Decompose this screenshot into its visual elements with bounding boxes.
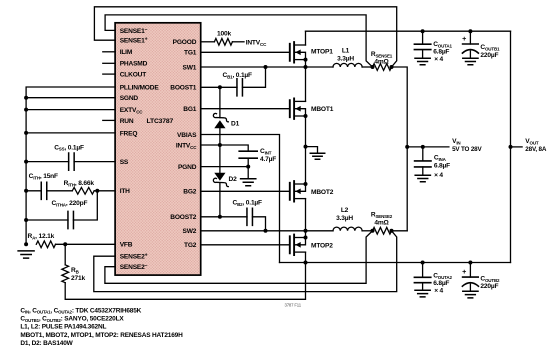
inductor L1 3.3uH	[333, 63, 362, 67]
node FREQ bus junction	[24, 131, 28, 135]
inductor L2 3.3uH	[333, 227, 362, 231]
svg-text:SENSE1–: SENSE1–	[120, 27, 148, 35]
wire L2 to RSENSE2	[362, 230, 372, 232]
diode D2 BAS140W schottky	[214, 173, 225, 181]
svg-text:CB2, 0.1µF: CB2, 0.1µF	[233, 200, 263, 207]
wire RA to VFB pin	[56, 243, 116, 245]
svg-text:MBOT2: MBOT2	[311, 189, 334, 196]
capacitor CINT 4.7uF	[239, 151, 257, 158]
wire CINT to ground	[247, 158, 249, 178]
wire L1 to RSENSE1	[362, 66, 372, 68]
capacitor COUTA1 6.8uF x4	[414, 44, 430, 49]
wire FREQ row	[26, 132, 115, 134]
wire TG2 to MTOP2 gate	[201, 244, 290, 246]
svg-text:BG2: BG2	[183, 189, 197, 196]
wire INTVCC to D2 anode	[219, 145, 221, 173]
wire SENSE1- kelvin loop to RSENSE1 left	[105, 15, 372, 67]
wire MBOT2 drain to SW2	[305, 199, 307, 231]
svg-text:× 4: × 4	[434, 172, 443, 179]
svg-text:COUTB1: COUTB1	[480, 44, 500, 51]
svg-text:D1, D2: BAS140W: D1, D2: BAS140W	[20, 340, 73, 347]
svg-text:VOUT: VOUT	[525, 138, 539, 145]
node BOOST1 D1 tap	[218, 85, 222, 89]
svg-text:TG1: TG1	[184, 50, 197, 57]
svg-text:100k: 100k	[217, 31, 231, 38]
node ITH junction	[95, 189, 99, 193]
wire SW1 to L1	[306, 66, 334, 68]
node SW1 junction	[304, 65, 308, 69]
svg-text:MBOT1: MBOT1	[311, 106, 334, 113]
ground symbol at RA	[18, 251, 34, 258]
svg-text:4.7µF: 4.7µF	[260, 156, 276, 163]
capacitor CB2 0.1uF	[247, 208, 253, 225]
ground symbol below COUTB1	[463, 58, 478, 65]
diode D1 BAS140W schottky	[214, 120, 225, 128]
svg-text:INTVCC: INTVCC	[246, 40, 267, 47]
svg-text:CB1, 0.1µF: CB1, 0.1µF	[223, 72, 253, 79]
capacitor CB1 0.1uF	[237, 79, 243, 96]
wire CB1 to SW1	[243, 67, 266, 87]
svg-text:D2: D2	[229, 176, 238, 183]
svg-text:VBIAS: VBIAS	[177, 132, 197, 139]
svg-text:PHASMD: PHASMD	[120, 61, 148, 68]
node MTOP2 drain rail junction	[304, 261, 308, 265]
svg-text:ILIM: ILIM	[120, 49, 133, 56]
svg-text:L2: L2	[341, 207, 349, 214]
node COUTB1 junction	[468, 29, 472, 33]
svg-text:PLLIN/MODE: PLLIN/MODE	[120, 84, 160, 91]
svg-text:CINT: CINT	[260, 148, 272, 155]
wire PGOOD pin to resistor	[201, 41, 215, 43]
wire stub pin RUN	[103, 119, 115, 121]
svg-text:COUTB2: COUTB2	[480, 276, 500, 283]
ground symbol power stage	[310, 153, 324, 159]
node VOUT tap junction	[509, 145, 513, 149]
svg-text:COUTA2: COUTA2	[433, 272, 452, 279]
svg-text:VIN: VIN	[452, 138, 460, 145]
wire VOUT top rail	[306, 30, 511, 32]
wire SW1 row	[201, 66, 306, 68]
wire stub pin PHASMD	[103, 62, 115, 64]
svg-text:4mΩ: 4mΩ	[374, 58, 389, 65]
svg-text:COUTA1: COUTA1	[433, 41, 452, 48]
svg-text:RITH, 8.66k: RITH, 8.66k	[64, 180, 95, 187]
svg-text:6.8µF: 6.8µF	[434, 162, 450, 169]
wire CITH to RITH	[47, 190, 73, 192]
transistor MBOT1 HAT2169H	[289, 100, 291, 117]
node COUTB2 junction	[468, 261, 472, 265]
transistor MBOT2 HAT2169H	[289, 183, 291, 200]
svg-text:5V TO 28V: 5V TO 28V	[452, 146, 482, 153]
svg-text:RB: RB	[71, 267, 80, 274]
svg-text:MBOT1, MBOT2, MTOP1, MTOP2: RE: MBOT1, MBOT2, MTOP1, MTOP2: RENESAS HAT2…	[20, 332, 183, 339]
wire VOUT bottom rail	[280, 262, 511, 264]
wire COUTA2 lead	[422, 263, 424, 278]
node COUTA1 junction	[421, 29, 425, 33]
wire COUTB1 lead	[469, 31, 471, 44]
svg-text:L1, L2: PULSE PA1494.362NL: L1, L2: PULSE PA1494.362NL	[20, 324, 106, 331]
wire SENSE1+ kelvin loop to RSENSE1 right	[94, 7, 396, 67]
svg-text:CITH, 15nF: CITH, 15nF	[29, 173, 58, 180]
svg-text:MTOP1: MTOP1	[311, 49, 333, 56]
capacitor CSS 0.1uF	[69, 153, 75, 170]
wire D1 anode to INTVCC row	[219, 128, 221, 145]
wire SW2 row	[201, 230, 306, 232]
svg-text:RSENSE2: RSENSE2	[371, 212, 393, 219]
wire COUTB1 to ground	[469, 51, 471, 57]
svg-text:VFB: VFB	[120, 242, 133, 249]
wire D2 cathode to BOOST2 row	[219, 183, 221, 217]
wire SW2 to MTOP2 source	[305, 231, 307, 238]
wire VOUT right rail	[510, 31, 512, 262]
wire stub pin ILIM	[103, 51, 115, 53]
wire RITH to ITH pin	[94, 190, 115, 192]
wire VOUT stub	[511, 146, 523, 148]
node BOOST2 D2 tap	[218, 215, 222, 219]
wire ground node to MBOT2 source	[305, 147, 307, 184]
node RSENSE1 left terminal	[371, 65, 375, 69]
node INTVCC D1-D2 junction	[218, 143, 222, 147]
wire VIN row	[407, 146, 449, 148]
wire BOOST2 row	[201, 216, 247, 218]
svg-text:SENSE1+: SENSE1+	[120, 37, 148, 45]
svg-text:RUN: RUN	[120, 118, 134, 125]
svg-text:COUTB1, COUTB2: SANYO, 50CE220: COUTB1, COUTB2: SANYO, 50CE220LX	[20, 315, 124, 322]
svg-text:220µF: 220µF	[480, 52, 498, 59]
svg-text:TG2: TG2	[184, 242, 197, 249]
wire PGND row	[201, 166, 249, 168]
svg-text:4mΩ: 4mΩ	[374, 220, 389, 227]
svg-text:MTOP2: MTOP2	[311, 242, 333, 249]
wire SGND row	[26, 97, 115, 99]
wire SS row right segment	[74, 161, 115, 163]
wire ITH row bus to CITH	[26, 190, 41, 192]
ground symbol below COUTA1	[415, 58, 430, 65]
node SGND bus junction	[24, 96, 28, 100]
ground symbol below CINT	[241, 179, 256, 186]
wire VFB node down to RB	[64, 244, 66, 264]
node CSS bus junction	[24, 160, 28, 164]
node CINA junction	[421, 145, 425, 149]
svg-text:CLKOUT: CLKOUT	[120, 72, 147, 79]
wire INTVCC row	[201, 145, 249, 151]
wire BG1 to MBOT1 gate	[201, 108, 290, 110]
wire CINA to ground	[422, 167, 424, 175]
capacitor CITHA 220pF	[68, 211, 74, 228]
resistor 100k PGOOD pull-up	[214, 38, 232, 45]
capacitor COUTA2 6.8uF x4	[414, 277, 430, 282]
svg-text:3.3µH: 3.3µH	[336, 215, 353, 222]
wire BOOST1 row	[201, 86, 237, 88]
svg-text:6.8µF: 6.8µF	[433, 49, 449, 56]
wire COUTB2 to ground	[469, 284, 471, 290]
node power ground junction	[304, 145, 308, 149]
wire RSENSE2 to VIN rail corner	[392, 230, 408, 232]
wire VBIAS to VOUT bottom rail	[201, 135, 280, 263]
svg-text:PGND: PGND	[178, 164, 197, 171]
svg-text:PGOOD: PGOOD	[173, 39, 197, 46]
svg-text:BOOST2: BOOST2	[170, 214, 197, 221]
wire MTOP2 drain to VOUT bottom rail	[305, 252, 307, 262]
resistor RA 12.1k	[36, 241, 55, 248]
capacitor CINA 6.8uF x4	[415, 161, 431, 167]
svg-text:SENSE2–: SENSE2–	[120, 263, 148, 271]
wire MBOT1 source to ground node	[305, 116, 307, 147]
wire resistor to INTVCC net label	[232, 41, 244, 43]
wire left ground bus with PLLIN/MODE row	[26, 87, 115, 244]
node SW2 CB2 tap	[264, 229, 268, 233]
resistor RSENSE2 4mOhm	[373, 227, 392, 234]
wire RSENSE1 to VIN rail	[392, 67, 408, 231]
wire CITHA branch	[26, 219, 68, 221]
wire RB to VOUT rail	[65, 263, 305, 300]
node CITH bus junction	[24, 189, 28, 193]
capacitor CITH 15nF	[41, 182, 47, 199]
svg-text:SS: SS	[120, 159, 129, 166]
transistor MTOP1 HAT2169H	[289, 44, 291, 61]
node CITHA bus junction	[24, 218, 28, 222]
ground symbol below CINA	[415, 175, 430, 182]
svg-text:RA, 12.1k: RA, 12.1k	[28, 233, 55, 240]
wire VOUT top rail corner to MTOP1 drain	[305, 31, 307, 45]
svg-text:SGND: SGND	[120, 95, 139, 102]
wire ground stub	[306, 147, 318, 153]
ground symbol below COUTA2	[415, 290, 430, 297]
resistor RSENSE1 4mOhm	[373, 64, 392, 71]
node EXTVCC bus junction	[24, 108, 28, 112]
wire SENSE2- kelvin loop to RSENSE2 left	[105, 231, 373, 283]
wire COUTA1 lead	[422, 31, 424, 44]
wire MTOP1 source to SW1	[305, 60, 307, 67]
wire CB2 to SW2	[253, 217, 266, 231]
node RSENSE2 left terminal	[371, 229, 375, 233]
svg-text:28V, 8A: 28V, 8A	[525, 146, 547, 153]
svg-text:SENSE2+: SENSE2+	[120, 253, 148, 261]
svg-text:CINA: CINA	[434, 154, 447, 161]
wire TG1 to MTOP1 gate	[201, 51, 290, 53]
wire BOOST1 down to D1 cathode	[219, 87, 221, 117]
svg-text:LTC3787: LTC3787	[147, 118, 174, 125]
svg-text:3.3µH: 3.3µH	[337, 55, 354, 62]
transistor MTOP2 HAT2169H	[289, 236, 291, 253]
wire CITHA to ITH node	[73, 191, 97, 220]
node SW1 CB1 tap	[264, 65, 268, 69]
node SW2 junction	[304, 229, 308, 233]
wire COUTA1 to ground	[422, 50, 424, 58]
svg-text:CIN, COUTA1, COUTA2: TDK C4532: CIN, COUTA1, COUTA2: TDK C4532X7RIH685K	[20, 307, 141, 314]
svg-text:× 4: × 4	[434, 287, 443, 294]
svg-text:+: +	[462, 34, 466, 43]
node RSENSE2 right terminal	[390, 229, 394, 233]
svg-text:SW1: SW1	[183, 64, 197, 71]
svg-text:SW2: SW2	[183, 228, 197, 235]
capacitor COUTB2 220uF polarized	[463, 276, 479, 278]
svg-text:FREQ: FREQ	[120, 130, 138, 137]
node VIN tap junction	[405, 145, 409, 149]
wire COUTA2 to ground	[422, 283, 424, 290]
node COUTA2 junction	[421, 261, 425, 265]
svg-text:BG1: BG1	[183, 106, 197, 113]
wire COUTB2 lead	[469, 263, 471, 278]
svg-text:CSS, 0.1µF: CSS, 0.1µF	[54, 144, 84, 151]
svg-text:D1: D1	[231, 121, 240, 128]
node VFB divider junction	[63, 242, 67, 246]
resistor RITH 8.66k	[72, 187, 94, 194]
svg-text:6.8µF: 6.8µF	[433, 280, 449, 287]
svg-text:+: +	[462, 267, 466, 276]
wire SW2 to L2	[306, 230, 334, 232]
wire BG2 to MBOT2 gate	[201, 190, 290, 192]
node RSENSE1 right terminal	[390, 65, 394, 69]
capacitor COUTB1 220uF polarized	[463, 43, 479, 45]
wire SENSE2+ kelvin loop to RSENSE2 right	[94, 231, 397, 292]
node PGND CINT junction	[246, 165, 250, 169]
ground symbol below COUTB2	[463, 291, 478, 298]
svg-text:BOOST1: BOOST1	[170, 85, 197, 92]
svg-text:CITHA, 220pF: CITHA, 220pF	[52, 200, 88, 207]
svg-text:RSENSE1: RSENSE1	[371, 51, 393, 58]
resistor RB 271k	[62, 265, 69, 283]
wire EXTVCC row	[26, 109, 115, 111]
svg-text:271k: 271k	[71, 275, 85, 282]
svg-text:× 4: × 4	[434, 56, 443, 63]
wire SW1 to MBOT1 drain	[305, 67, 307, 101]
node RA ground junction	[24, 242, 28, 246]
svg-text:ITH: ITH	[120, 188, 130, 195]
svg-text:220µF: 220µF	[480, 283, 498, 290]
wire stub pin CLKOUT	[103, 73, 115, 75]
svg-text:3787 F11: 3787 F11	[285, 302, 302, 307]
wire CINA lead	[422, 147, 424, 161]
svg-text:L1: L1	[342, 48, 350, 55]
wire SS row left segment	[26, 161, 69, 163]
